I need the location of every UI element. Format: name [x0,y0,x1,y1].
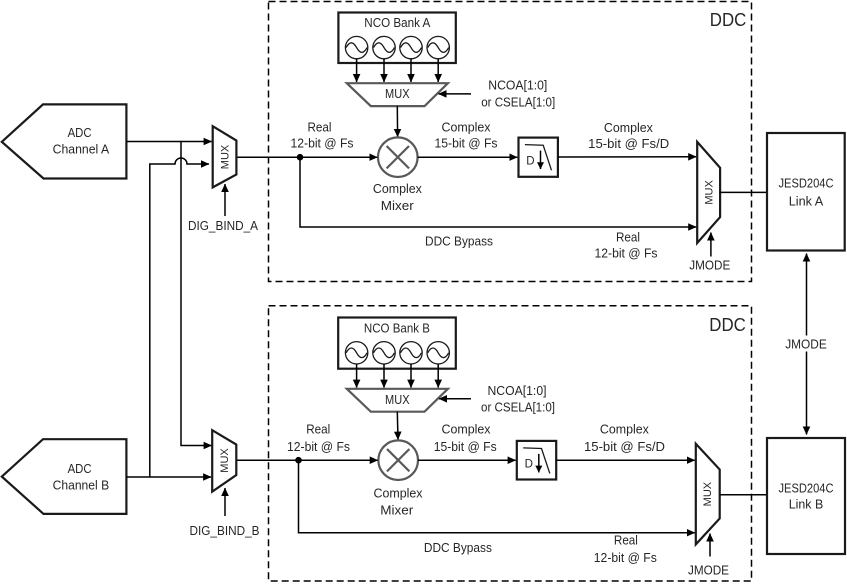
svg-text:JESD204C: JESD204C [779,481,834,496]
svg-text:12-bit @ Fs: 12-bit @ Fs [595,245,658,260]
svg-text:JESD204C: JESD204C [779,176,834,191]
NCOA select wire [439,93,472,95]
svg-text:DIG_BIND_B: DIG_BIND_B [190,523,260,538]
svg-text:Channel A: Channel A [53,142,110,157]
wire output mux A to JESD A [720,191,767,193]
node junction B (bypass tap) [295,457,302,464]
svg-text:Complex: Complex [604,120,653,135]
svg-text:Mixer: Mixer [381,198,415,213]
input mux B1 [212,430,236,492]
node junction A (bypass tap) [297,154,304,161]
NCO oscillator A1 [345,36,367,58]
wire NCO A4 to mux [437,59,439,82]
decimation filter B down arrow [538,454,540,473]
wire mixer B to decimation filter B [418,459,516,461]
wire ADC A to mux A1 [126,141,211,143]
wire NCO mux A to mixer [396,106,398,137]
wire NCO B4 to mux [437,364,439,388]
svg-text:Real: Real [306,421,330,436]
svg-text:Channel B: Channel B [53,478,110,493]
svg-text:NCO Bank A: NCO Bank A [364,15,430,30]
svg-text:Complex: Complex [373,181,422,196]
wire output mux B to JESD B [720,494,767,496]
svg-text:Real: Real [616,229,640,244]
DIG_BIND_A arrow [224,184,226,216]
svg-text:DDC: DDC [709,315,746,335]
svg-text:Complex: Complex [600,421,649,436]
decimation filter A response curve [525,145,552,171]
NCO oscillator B4 [427,342,449,364]
input mux A1 [213,126,237,187]
svg-text:MUX: MUX [219,448,231,473]
svg-text:NCOA[1:0]: NCOA[1:0] [488,383,547,398]
wire NCO B2 to mux [383,364,385,388]
NCO oscillator A4 [427,36,449,58]
JMODE link label backing [783,336,830,352]
wire NCO A2 to mux [383,59,385,82]
svg-text:MUX: MUX [702,481,714,506]
NCO oscillator B1 [345,342,367,364]
svg-text:DDC: DDC [710,10,747,30]
ADC Channel A block [2,104,127,178]
crossbind wire B to A with hop [150,158,209,477]
NCO oscillator A3 [400,36,422,58]
svg-text:Real: Real [614,533,638,548]
ADC Channel B block [2,439,127,514]
wire NCO A3 to mux [410,59,412,82]
svg-text:ADC: ADC [68,125,92,140]
svg-text:NCOA[1:0]: NCOA[1:0] [488,77,547,92]
svg-text:Complex: Complex [442,421,491,436]
svg-text:12-bit @ Fs: 12-bit @ Fs [594,550,657,565]
wire NCO B1 to mux [356,364,358,388]
NCO select mux A [347,83,448,106]
wire NCO A1 to mux [356,59,358,82]
svg-text:Real: Real [308,120,332,135]
svg-text:Link A: Link A [789,194,824,209]
svg-text:D: D [525,458,533,470]
svg-text:JMODE: JMODE [688,563,729,578]
svg-text:12-bit @ Fs: 12-bit @ Fs [291,136,354,151]
wire mux B1 out to mixer B [236,459,377,461]
wire NCO mux B to mixer [396,412,399,440]
wire filter A to output mux A [558,156,696,158]
svg-text:Link B: Link B [789,496,824,511]
svg-text:or CSELA[1:0]: or CSELA[1:0] [481,95,555,110]
wire filter B to output mux B [556,459,695,461]
decimation filter B box [517,441,556,480]
svg-text:ADC: ADC [68,461,92,476]
NCO Bank A box [338,13,455,64]
svg-text:15-bit @ Fs: 15-bit @ Fs [434,439,497,454]
decimation filter A box [519,138,558,177]
svg-text:MUX: MUX [385,392,410,407]
decimation filter B response curve [523,448,550,474]
svg-text:or CSELA[1:0]: or CSELA[1:0] [481,400,555,415]
svg-text:Complex: Complex [442,120,491,135]
decimation filter A down arrow [540,151,542,169]
DDC B dashed boundary [269,306,752,581]
svg-text:15-bit @ Fs/D: 15-bit @ Fs/D [588,136,669,151]
svg-text:DDC Bypass: DDC Bypass [425,234,493,249]
svg-text:JMODE: JMODE [689,258,730,273]
svg-text:DDC Bypass: DDC Bypass [424,540,492,555]
wire ADC B to mux B1 [126,476,211,478]
NCO oscillator A2 [373,36,395,58]
output mux B [696,444,720,545]
wire NCO B3 to mux [410,364,412,388]
svg-text:D: D [526,155,534,167]
svg-text:15-bit @ Fs: 15-bit @ Fs [435,136,498,151]
NCO Bank B box [338,318,456,369]
crossbind wire A to B (vertical drop) [181,142,212,446]
JMODE link arrow (between JESD A and B) [806,254,808,435]
JESD204C Link A box [767,133,845,251]
JMODE arrow B [709,534,711,557]
svg-text:12-bit @ Fs: 12-bit @ Fs [287,439,350,454]
output mux A [697,142,720,243]
NCO select mux B [347,389,448,412]
complex mixer A [378,137,418,177]
wire mux A1 out to mixer A [236,156,377,158]
svg-text:DIG_BIND_A: DIG_BIND_A [188,218,258,233]
DDC A dashed boundary [269,2,752,282]
JESD204C Link B box [767,438,845,554]
DIG_BIND_B arrow [224,488,226,516]
bypass wire A [300,157,696,227]
svg-text:MUX: MUX [219,144,231,169]
svg-text:JMODE: JMODE [785,336,827,351]
wire mixer A to decimation filter A [418,156,518,158]
svg-text:MUX: MUX [385,86,410,101]
NCO oscillator B2 [373,342,395,364]
NCOB select wire [439,398,471,400]
complex mixer B [378,440,418,480]
svg-text:Mixer: Mixer [380,503,414,518]
NCO oscillator B3 [400,342,422,364]
bypass wire B [299,460,695,533]
svg-text:15-bit @ Fs/D: 15-bit @ Fs/D [584,439,665,454]
svg-text:MUX: MUX [704,180,716,205]
JMODE arrow A [710,233,712,257]
svg-text:Complex: Complex [374,486,423,501]
svg-text:NCO Bank B: NCO Bank B [364,321,430,336]
